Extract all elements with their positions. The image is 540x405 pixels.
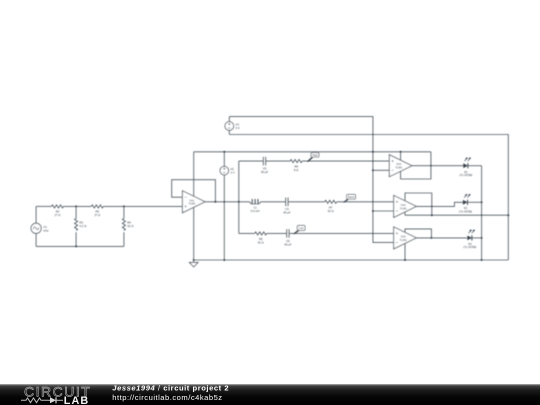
junction OA3 ring at output — [431, 206, 433, 208]
footer bar — [0, 384, 540, 405]
junction OA2 V+ at rail — [400, 151, 402, 153]
junction V3 bus at OA2 inverting input — [372, 169, 374, 171]
wire OA3 V+ ring top — [405, 193, 432, 215]
wire OA4 V- stub to ground rail — [404, 244, 406, 261]
svg-text:L1: L1 — [254, 205, 258, 209]
junction OA4 V- at ground rail — [404, 259, 406, 261]
junction node A — [75, 205, 77, 207]
wire input top from V1 to R3 — [36, 205, 51, 207]
wire OA3 output with jog to D2 — [416, 202, 463, 206]
svg-text:Jesse1994 / circuit project 2: Jesse1994 / circuit project 2 — [112, 383, 229, 392]
junction OA3 ring bottom — [431, 214, 433, 216]
wire supply rail (+) — [194, 151, 431, 153]
svg-text:1 V: 1 V — [230, 171, 234, 175]
svg-text:90 µF: 90 µF — [284, 242, 291, 246]
wire OA2 supply ring — [401, 152, 431, 179]
svg-text:Band: Band — [348, 195, 355, 199]
wire High branch left — [239, 160, 263, 162]
svg-text:sine: sine — [43, 229, 49, 233]
resistor R4 32 Ohm (shunt) — [122, 206, 134, 246]
junction V3 bus at V- rail crossing — [372, 134, 374, 136]
junction OA3 V- line at LED bus — [481, 214, 483, 216]
junction OA3 V- line at right edge — [507, 214, 509, 216]
svg-text:TL081: TL081 — [400, 207, 408, 210]
wire R3 to node A — [64, 205, 92, 207]
op-amp OA4 TL081 (Low comparator) — [394, 227, 417, 249]
ground — [189, 260, 198, 267]
svg-text:90 µF: 90 µF — [283, 211, 290, 215]
svg-text:62 Ω: 62 Ω — [328, 209, 334, 213]
wire ground rail — [194, 259, 509, 261]
junction node B — [123, 205, 125, 207]
svg-text:R8: R8 — [294, 164, 298, 168]
wire R6 to C6 — [267, 232, 287, 234]
capacitor C5 90 uF — [261, 157, 268, 174]
junction V2 top at rail — [223, 151, 225, 153]
logo resistor-diode glyph — [21, 398, 48, 403]
wire OA1 feedback loop — [172, 180, 216, 202]
resistor R7 62 Ohm — [325, 200, 337, 213]
inductor L1 5.6 mH — [250, 199, 261, 213]
wire R7 to OA3 + input — [337, 201, 394, 203]
wire input bottom loop — [36, 245, 124, 247]
junction V3 bus at OA3 inverting input — [372, 210, 374, 212]
resistor R6 62 Ohm — [255, 232, 267, 245]
wire D3 cathode to LED bus — [471, 237, 482, 239]
flag node Low — [293, 225, 305, 234]
wire D1 cathode to LED bus — [467, 165, 482, 167]
svg-text:4.2 Ω: 4.2 Ω — [79, 224, 87, 228]
svg-text:C5: C5 — [263, 167, 267, 171]
wire OA2 output to D1 — [412, 165, 464, 167]
wire V3 top rail and reference bus — [229, 117, 393, 243]
svg-text:8 Ω: 8 Ω — [294, 168, 298, 172]
wire L1 to C4 — [261, 201, 286, 203]
wire Low branch left — [239, 232, 255, 234]
svg-text:R3: R3 — [56, 210, 60, 214]
svg-text:LTL-307EE: LTL-307EE — [459, 209, 472, 213]
svg-text:R5: R5 — [96, 210, 100, 214]
wire filter branch bus — [238, 161, 240, 233]
junction V3 bus at Band branch — [372, 201, 374, 203]
junction V3 bus at High branch — [372, 160, 374, 162]
svg-text:TL081: TL081 — [188, 203, 196, 206]
svg-text:C6: C6 — [286, 239, 290, 243]
wire OA1 V+ supply stub — [193, 152, 195, 196]
svg-text:High: High — [312, 153, 318, 157]
capacitor C6 90 uF — [284, 229, 291, 246]
LED D3 LTL-307EE — [463, 229, 476, 249]
wire OA2 V+ stub — [400, 152, 402, 160]
wire R5 to node B — [103, 205, 182, 207]
svg-text:LTL-307EE: LTL-307EE — [459, 173, 472, 177]
junction LED bus at ground rail — [481, 259, 483, 261]
svg-text:Low: Low — [299, 226, 304, 230]
svg-text:62 Ω: 62 Ω — [258, 241, 264, 245]
svg-text:27 Ω: 27 Ω — [94, 213, 100, 217]
svg-text:32 Ω: 32 Ω — [127, 224, 134, 228]
wire OA1 V- supply stub — [193, 208, 195, 261]
wire C4 to R7 — [288, 201, 325, 203]
wire OA4 V+ ring — [405, 229, 431, 238]
op-amp OA1 TL081 (buffer) — [182, 191, 205, 213]
LED D1 LTL-307EE — [459, 157, 472, 177]
junction OA1 V- at ground rail — [193, 259, 195, 261]
junction V2 line at OA1 output — [223, 201, 225, 203]
junction OA2 ring at output — [430, 165, 432, 167]
wire OA3 V- line to right edge — [405, 212, 508, 215]
svg-text:TL081: TL081 — [400, 239, 408, 242]
wire LED cathode bus — [481, 166, 483, 260]
wire V3 bottom rail — [229, 135, 508, 261]
svg-text:LAB: LAB — [64, 395, 90, 405]
svg-text:R6: R6 — [259, 237, 263, 241]
wire C6 to OA4 + input — [289, 232, 394, 234]
svg-text:R7: R7 — [329, 205, 333, 209]
svg-text:C4: C4 — [285, 207, 289, 211]
wire R8 to OA2 + input — [302, 160, 389, 162]
wire C5 to R8 — [266, 160, 290, 162]
wire OA4 output to D3 — [416, 237, 467, 239]
svg-text:LTL-307EE: LTL-307EE — [463, 245, 476, 249]
voltage source V2 1 V — [220, 152, 235, 260]
junction R2 bottom — [75, 245, 77, 247]
junction OA4 ring at output — [430, 237, 432, 239]
voltage source V3 3 V — [225, 117, 240, 135]
flag node High — [307, 153, 319, 162]
wire OA3 inverting input — [373, 210, 394, 212]
junction V2 line at ground rail — [223, 259, 225, 261]
capacitor C4 90 uF — [283, 198, 290, 215]
resistor R5 27 Ohm — [91, 205, 103, 217]
junction OA1 output/feedback — [214, 201, 216, 203]
junction D3 at LED bus — [481, 237, 483, 239]
svg-text:http://circuitlab.com/c4kab5z: http://circuitlab.com/c4kab5z — [112, 393, 222, 402]
wire OA1 output — [205, 201, 239, 203]
svg-text:5.6 mH: 5.6 mH — [251, 209, 260, 213]
resistor R8 8 Ohm — [290, 160, 302, 172]
svg-text:TL081: TL081 — [395, 167, 403, 170]
junction branch bus at Band row — [238, 201, 240, 203]
op-amp OA3 TL081 (Band comparator) — [394, 195, 417, 217]
flag node Band — [343, 194, 355, 202]
wire Band branch left — [239, 201, 250, 203]
junction D2 at LED bus — [481, 201, 483, 203]
resistor R2 4.2 Ohm (shunt) — [75, 206, 88, 246]
wire D2 cathode to LED bus — [467, 201, 482, 203]
wire OA2 inverting input — [373, 169, 389, 171]
voltage source V1 (sine input) — [31, 206, 49, 246]
LED D2 LTL-307EE — [459, 194, 472, 214]
svg-text:3 V: 3 V — [235, 126, 239, 130]
junction V3 bus at Low branch — [372, 233, 374, 235]
svg-text:27 Ω: 27 Ω — [55, 213, 61, 217]
junction V3 bus at supply rail — [372, 151, 374, 153]
op-amp OA2 TL081 (High comparator) — [389, 155, 412, 177]
svg-text:90 µF: 90 µF — [261, 170, 268, 174]
resistor R3 27 Ohm — [52, 205, 64, 217]
